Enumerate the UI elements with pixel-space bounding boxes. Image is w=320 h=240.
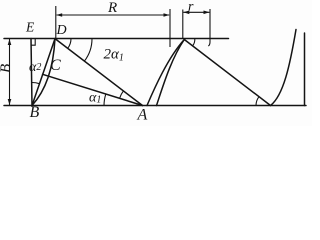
svg-text:C: C [50,57,61,74]
svg-text:E: E [25,20,35,35]
svg-text:R: R [107,0,117,16]
svg-text:2α1: 2α1 [104,47,124,64]
svg-text:A: A [137,107,148,124]
svg-text:r: r [188,0,194,15]
svg-text:B: B [30,104,40,121]
svg-text:α2: α2 [29,60,41,75]
svg-text:D: D [56,23,67,38]
svg-text:B: B [0,64,14,73]
